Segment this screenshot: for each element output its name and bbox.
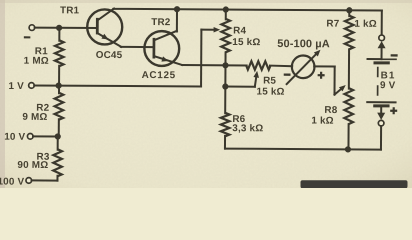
wire top supply rail bbox=[113, 9, 381, 11]
svg-text:TR1: TR1 bbox=[60, 5, 80, 16]
wire emitter node to R5 bbox=[182, 64, 246, 66]
terminal 1 V bbox=[29, 83, 35, 89]
terminal 100 V bbox=[26, 178, 32, 184]
wire R4 wiper riser bbox=[200, 30, 202, 87]
svg-text:15 kΩ: 15 kΩ bbox=[232, 37, 260, 48]
resistor R2 bbox=[55, 93, 64, 120]
junction node R1 top bbox=[56, 25, 62, 31]
svg-text:R7: R7 bbox=[326, 19, 339, 30]
battery B1 cells bbox=[367, 58, 397, 60]
svg-text:90 MΩ: 90 MΩ bbox=[17, 160, 48, 171]
wire meter + to R8 wiper bbox=[314, 65, 334, 67]
junction node emitter/R4/R5 bbox=[222, 62, 228, 68]
wire 1V tap to R4 wiper riser bbox=[34, 85, 201, 86]
R4 wiper arrow bbox=[201, 29, 213, 31]
transistor TR2 bbox=[144, 31, 179, 66]
meter plus mark bbox=[318, 74, 325, 76]
svg-text:15 kΩ: 15 kΩ bbox=[256, 87, 284, 98]
junction node R7 top bbox=[346, 7, 352, 13]
svg-text:R8: R8 bbox=[324, 105, 337, 116]
svg-text:R4: R4 bbox=[233, 26, 246, 37]
svg-text:1 MΩ: 1 MΩ bbox=[24, 56, 49, 67]
svg-text:100 V: 100 V bbox=[0, 177, 25, 188]
battery B1 terminal wire (top) bbox=[381, 10, 383, 35]
wire TR1 emitter to TR2 base bbox=[121, 46, 153, 48]
svg-text:9 V: 9 V bbox=[380, 80, 396, 91]
junction node 10V bbox=[55, 133, 61, 139]
input terminal (top) bbox=[29, 25, 35, 31]
svg-text:10 V: 10 V bbox=[4, 132, 25, 143]
junction node R5 wiper / R6 bbox=[222, 83, 228, 89]
wire node1 to node2 bbox=[224, 65, 226, 86]
svg-text:R5: R5 bbox=[263, 76, 276, 87]
svg-text:9 MΩ: 9 MΩ bbox=[22, 112, 47, 123]
meter minus mark bbox=[284, 73, 291, 75]
terminal 10 V bbox=[27, 134, 33, 140]
resistor R6 bbox=[224, 87, 226, 114]
battery plus mark bbox=[390, 110, 397, 112]
junction node R4 top bbox=[223, 6, 229, 12]
potentiometer R5 bbox=[246, 61, 270, 70]
potentiometer R4 bbox=[225, 10, 227, 20]
svg-text:TR2: TR2 bbox=[151, 17, 171, 28]
transistor TR1 bbox=[87, 9, 122, 44]
svg-text:OC45: OC45 bbox=[96, 50, 123, 61]
junction node TR2 collector / rail bbox=[174, 6, 180, 12]
junction node 1V bbox=[56, 82, 62, 88]
svg-text:1 kΩ: 1 kΩ bbox=[354, 19, 377, 30]
battery plug terminal bottom bbox=[380, 106, 382, 114]
resistor R3 bbox=[53, 149, 62, 176]
svg-text:3,3 kΩ: 3,3 kΩ bbox=[232, 123, 263, 134]
wire bottom rail bbox=[225, 148, 381, 151]
svg-text:AC125: AC125 bbox=[142, 70, 176, 81]
svg-text:1 kΩ: 1 kΩ bbox=[311, 116, 334, 127]
wire R5 wiper to node2 bbox=[225, 86, 254, 88]
battery plug terminal top bbox=[379, 35, 385, 41]
meter M 50-100 µA bbox=[292, 55, 315, 78]
svg-text:50-100 µA: 50-100 µA bbox=[277, 38, 330, 50]
resistor R1 bbox=[55, 40, 64, 66]
wire TR2 collector to top rail bbox=[176, 9, 178, 31]
resistor R7 bbox=[348, 10, 350, 16]
R5 wiper arrow bbox=[255, 76, 256, 86]
minus polarity mark bbox=[24, 36, 31, 38]
wire input to TR1 base bbox=[35, 27, 97, 29]
wire 100V to R3 bbox=[32, 179, 58, 181]
svg-text:1 V: 1 V bbox=[9, 81, 25, 92]
battery minus mark bbox=[391, 54, 398, 56]
junction node R8 bottom rail bbox=[345, 146, 351, 152]
wire 10V to divider bbox=[33, 135, 58, 137]
potentiometer R8 bbox=[344, 88, 353, 124]
